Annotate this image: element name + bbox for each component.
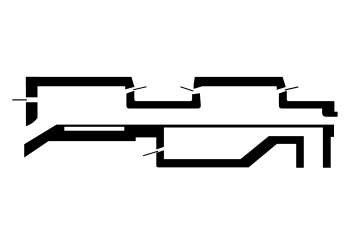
middle panel M1: angled left end, top band, right thin bar, head and hanger: [24, 125, 334, 168]
joint 2 screw line: [180, 86, 193, 91]
middle panel M2: lower leg, bottom band, ramp, shelf, hangers: [156, 136, 303, 168]
panel bar 2: [194, 77, 286, 90]
upper left leg: [26, 77, 38, 97]
joint 1 screw line: [133, 86, 146, 90]
lower left leg tip: [26, 102, 38, 126]
joint M screw line: [143, 151, 158, 156]
M1 slot highlight: [64, 127, 124, 131]
channel piece B: elbow, lower bar B, right foot: [279, 91, 338, 117]
joint 3 screw line: [285, 86, 299, 90]
panel bar 1: [26, 77, 135, 90]
fastener dash left: [12, 99, 27, 101]
channel piece A: elbow, lower bar A, riser: [126, 91, 200, 109]
